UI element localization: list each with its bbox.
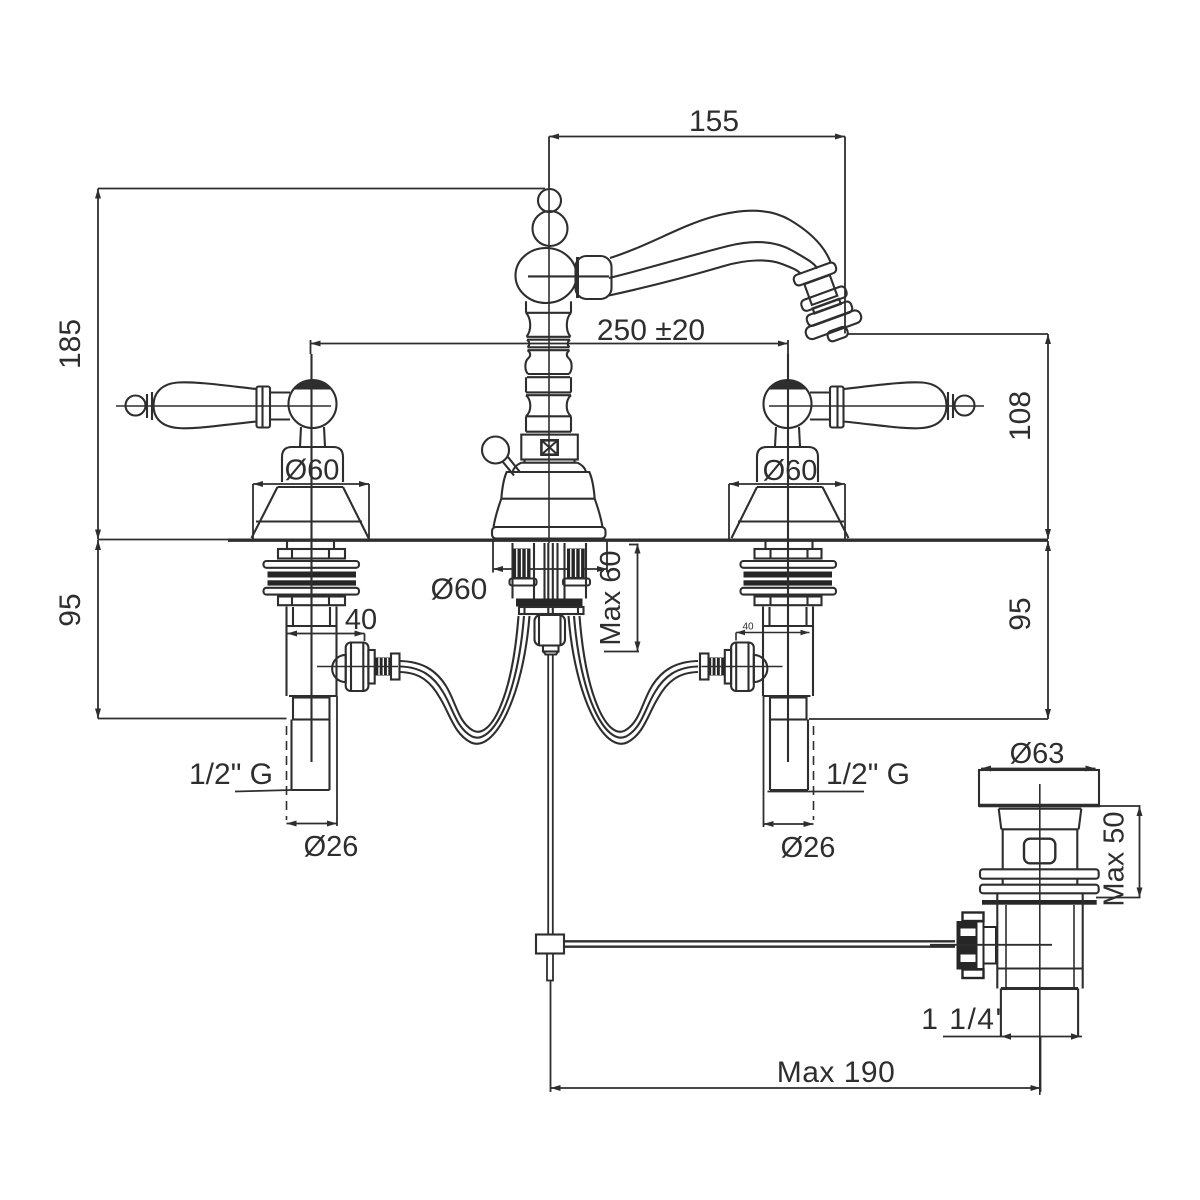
right hose <box>569 616 699 744</box>
svg-text:250 ±20: 250 ±20 <box>597 314 705 347</box>
right valve side outlet <box>700 643 783 692</box>
mounting bracket <box>516 599 584 615</box>
svg-text:Max 60: Max 60 <box>595 550 627 645</box>
svg-text:Ø26: Ø26 <box>781 832 836 864</box>
svg-text:185: 185 <box>54 319 87 369</box>
dim 40 right small <box>736 630 810 641</box>
svg-text:108: 108 <box>1004 391 1037 441</box>
svg-text:155: 155 <box>689 105 739 138</box>
svg-text:40: 40 <box>742 622 754 633</box>
right valve below-deck stack <box>741 354 837 790</box>
dim O60 left handle base <box>253 481 369 539</box>
dim 95 vertical right lower <box>809 541 1051 719</box>
bell base center <box>492 463 606 539</box>
svg-text:1/2" G: 1/2" G <box>826 758 910 791</box>
spout nozzle <box>786 259 866 349</box>
left hose <box>400 616 530 744</box>
svg-text:Ø60: Ø60 <box>763 455 818 487</box>
right handle <box>732 380 985 538</box>
svg-text:95: 95 <box>54 593 87 626</box>
dim Max 50 <box>1096 806 1143 898</box>
svg-text:1 1/4': 1 1/4' <box>921 1003 1002 1036</box>
center shanks below deck <box>510 543 591 599</box>
rod adjuster block <box>535 615 566 655</box>
dim 95 vertical left lower <box>95 540 287 719</box>
dim O26 right <box>764 696 814 827</box>
dim Max 190 <box>551 981 1041 1092</box>
horizontal popup rod <box>536 935 955 981</box>
svg-text:Ø63: Ø63 <box>1010 738 1065 770</box>
castellated nut <box>957 913 997 979</box>
svg-text:Ø26: Ø26 <box>304 831 359 863</box>
dim O63 popup flange <box>981 766 1096 772</box>
set screw box <box>521 435 578 463</box>
popup knob <box>482 437 520 476</box>
column below head <box>525 301 571 431</box>
svg-text:1/2" G: 1/2" G <box>189 758 273 791</box>
svg-text:Ø60: Ø60 <box>431 573 488 606</box>
spout tube <box>609 211 831 296</box>
spout top small ball <box>538 189 561 212</box>
popup waste body <box>930 770 1100 1095</box>
svg-text:95: 95 <box>1004 597 1037 630</box>
dim O60 right handle base <box>729 481 845 539</box>
left valve side outlet <box>317 643 400 692</box>
svg-text:Max 50: Max 50 <box>1099 811 1131 906</box>
popup rod long <box>548 655 553 935</box>
dim O60 center below deck <box>493 541 607 573</box>
dim 185 vertical left <box>95 189 545 540</box>
dim 1 1/4 tailpipe <box>943 1033 1082 1039</box>
left valve below-deck stack <box>264 354 360 790</box>
dim 108 vertical right <box>847 334 1051 539</box>
dim 250 +-20 <box>311 340 789 354</box>
spout head body <box>516 248 610 303</box>
dim O26 left <box>287 696 338 827</box>
svg-text:Max 190: Max 190 <box>777 1056 896 1089</box>
deck line <box>98 539 1048 542</box>
dim 155 horizontal <box>549 134 845 334</box>
popup rod upper guides <box>545 543 558 614</box>
left handle <box>116 380 369 538</box>
faucet centerline <box>548 189 550 544</box>
svg-text:40: 40 <box>345 604 377 636</box>
spout second ball <box>533 211 568 246</box>
dim Max 60 <box>604 544 641 652</box>
spout socket <box>576 256 612 299</box>
dim 40 left <box>287 631 365 642</box>
